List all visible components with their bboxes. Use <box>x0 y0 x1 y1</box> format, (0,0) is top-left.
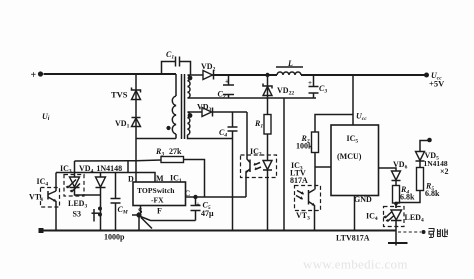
svg-text:1000p: 1000p <box>104 233 125 242</box>
transformer secondary 2 <box>188 112 233 139</box>
wire S diagonal to rail <box>141 218 152 229</box>
node VD22 junction <box>265 73 269 77</box>
wire clamp to primary bottom <box>136 138 176 140</box>
output terminal Ucc +5V <box>424 71 445 89</box>
capacitor C5 <box>191 197 215 221</box>
secondary 2 dot <box>188 113 193 118</box>
inductor L <box>276 59 303 75</box>
node C5 tap <box>193 195 197 199</box>
wire R2 top <box>315 115 353 133</box>
svg-text:47μ: 47μ <box>201 209 214 218</box>
wire drain to D pin <box>135 139 137 183</box>
wire secondary ground drop <box>283 98 285 231</box>
S pin node <box>132 206 142 218</box>
phototransistor VT3 <box>295 186 321 231</box>
svg-text:D: D <box>128 175 134 184</box>
svg-text:TOPSwitch: TOPSwitch <box>137 186 175 195</box>
wire C pin <box>186 196 247 198</box>
ground <box>388 242 408 244</box>
transformer core <box>181 74 183 139</box>
secondary 1 dot <box>188 76 193 81</box>
wire MCU input tap <box>315 166 332 168</box>
opto IC4 phototransistor VT4 <box>29 173 60 231</box>
wire S to C5 <box>141 217 196 221</box>
wire MCU right to VD6 <box>379 168 397 171</box>
resistor R4 <box>393 185 416 208</box>
zener VD22 <box>263 75 294 115</box>
capacitor C4 <box>219 112 238 231</box>
svg-text:-FX: -FX <box>151 196 164 205</box>
+5V output rail <box>213 74 278 76</box>
LED3 <box>64 175 101 210</box>
text pin (CJK) <box>429 229 448 238</box>
transformer secondary 1 <box>188 75 317 98</box>
svg-text:S3: S3 <box>73 210 81 219</box>
svg-text:M: M <box>156 174 164 183</box>
diode VD4 <box>96 173 106 188</box>
bottom rail <box>41 230 396 232</box>
svg-text:+: + <box>196 201 200 209</box>
capacitor C1 <box>162 50 191 75</box>
switch S3 <box>73 188 103 231</box>
input - terminal <box>39 228 44 233</box>
svg-text:LTV817A: LTV817A <box>336 234 370 243</box>
svg-text:100k: 100k <box>296 142 313 151</box>
svg-text:TVS: TVS <box>111 90 128 100</box>
svg-text:GND: GND <box>354 195 372 204</box>
capacitor C3 <box>308 75 327 98</box>
TVS (zener) <box>111 88 141 100</box>
opto IC2 <box>241 147 277 231</box>
wire bias drop to IC2 <box>246 112 248 159</box>
dashed pin wire <box>398 229 448 238</box>
diode VD1 <box>115 118 141 130</box>
svg-text:817A: 817A <box>290 176 308 185</box>
diode VD3 <box>197 103 247 117</box>
resistor R2 <box>296 132 319 190</box>
opto IC3 labels (transistor side) <box>290 161 308 185</box>
svg-text:×2: ×2 <box>440 167 449 176</box>
wire MCU gnd <box>354 196 356 231</box>
MCU IC5 <box>331 125 379 204</box>
resistor R1 <box>254 115 271 158</box>
svg-text:+5V: +5V <box>429 79 445 89</box>
svg-text:6.8k: 6.8k <box>425 189 440 198</box>
svg-text:(MCU): (MCU) <box>337 152 362 161</box>
wire clamp column top <box>135 74 137 139</box>
resistor R5 <box>394 168 440 209</box>
transformer T primary winding <box>172 74 176 139</box>
thin box edge <box>127 161 129 173</box>
IC2 arrows <box>254 163 260 166</box>
svg-text:6.8k: 6.8k <box>400 193 415 202</box>
primary dot <box>166 126 170 130</box>
TOPSwitch IC1 <box>128 174 191 216</box>
IC2 phototransistor <box>249 160 251 173</box>
capacitor CM <box>104 173 129 242</box>
IC2 led <box>263 161 272 170</box>
capacitor C2 <box>218 75 235 100</box>
input + terminal <box>31 70 44 81</box>
opto IC4 LED4 <box>366 207 424 246</box>
wire S down <box>138 215 140 231</box>
svg-text:27k: 27k <box>169 147 182 156</box>
diode VD5 <box>416 141 449 177</box>
wire M rail <box>56 173 155 183</box>
VD5 terminal <box>427 138 432 143</box>
svg-text:www.embedic.com: www.embedic.com <box>303 257 408 272</box>
wire Ucc drop <box>352 75 354 125</box>
wire input rail <box>44 73 177 75</box>
svg-text:F: F <box>157 207 162 216</box>
svg-text:+: + <box>31 70 37 81</box>
resistor R3 <box>75 147 205 197</box>
wire LED3 anode <box>74 161 76 177</box>
diode VD6 <box>392 160 408 186</box>
diode VD2 <box>201 62 216 80</box>
